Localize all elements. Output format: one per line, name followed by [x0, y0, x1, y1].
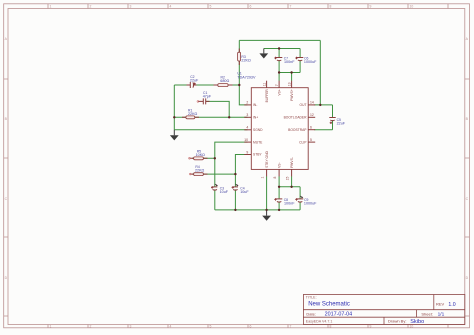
junction at C8 bottom rail	[278, 209, 280, 211]
wire: C7 branch vertical	[278, 49, 280, 58]
resistor R1	[182, 108, 199, 119]
ground	[170, 130, 179, 141]
wire: OUT row	[314, 104, 332, 106]
pin 12 BOOTLOADER	[284, 113, 316, 119]
svg-text:CLIP: CLIP	[299, 140, 307, 144]
svg-text:6: 6	[250, 5, 252, 9]
svg-text:Skibo: Skibo	[410, 319, 424, 325]
svg-text:1.0: 1.0	[448, 302, 455, 308]
junction at pin13 supply rail	[290, 71, 292, 73]
pin 2 IN-	[244, 101, 257, 107]
svg-text:REV: REV	[436, 301, 445, 306]
capacitor C2	[187, 75, 200, 88]
pin 4 SGND	[244, 126, 263, 132]
svg-text:100nF: 100nF	[284, 202, 295, 206]
wire: SGND row	[174, 129, 247, 131]
junction at R1 left	[173, 116, 175, 118]
wire: IN+ row through R1	[174, 116, 247, 118]
svg-text:22uF: 22uF	[190, 78, 199, 82]
svg-text:22KΩ: 22KΩ	[195, 169, 205, 173]
svg-text:PWVS+: PWVS+	[290, 89, 294, 101]
ground	[259, 49, 268, 59]
svg-text:1: 1	[261, 176, 265, 178]
svg-text:1/1: 1/1	[438, 312, 445, 318]
pin 13 PWVS+	[287, 81, 294, 101]
svg-text:22KΩ: 22KΩ	[188, 112, 198, 116]
svg-text:TDA7293V: TDA7293V	[237, 75, 256, 79]
wire: STBY branch down through C4	[235, 155, 247, 187]
capacitor C1	[197, 91, 212, 104]
resistor R4	[189, 165, 207, 175]
junction at OUT feedback	[319, 104, 321, 106]
svg-text:10KΩ: 10KΩ	[196, 153, 206, 157]
wire: left input vertical	[173, 85, 175, 130]
wire: ground rail top	[264, 48, 300, 50]
svg-text:2: 2	[90, 5, 92, 9]
svg-text:PWVS-: PWVS-	[290, 157, 294, 168]
svg-text:New Schematic: New Schematic	[308, 301, 350, 307]
pin 10 MUTE	[244, 138, 263, 144]
svg-text:6: 6	[310, 126, 312, 130]
wire: C6 branch vertical	[299, 49, 301, 58]
wire: STBY-GND pin 1 vertical	[266, 176, 268, 210]
svg-text:BUFFER: BUFFER	[265, 89, 269, 103]
svg-text:IN+: IN+	[253, 116, 258, 120]
wire: MUTE branch down through C3	[215, 142, 248, 187]
pin 5 CLIP	[299, 138, 315, 144]
svg-text:STBY: STBY	[253, 153, 262, 157]
svg-text:6: 6	[250, 324, 252, 328]
svg-text:2: 2	[90, 324, 92, 328]
junction at R2 IN- node	[238, 84, 240, 86]
svg-text:1: 1	[50, 5, 52, 9]
wire: R5 row	[192, 157, 215, 159]
pin 15 PWVS-	[286, 157, 295, 180]
wire: PWVS- pin 15 vertical	[291, 176, 293, 187]
svg-text:BOOSTRAP: BOOSTRAP	[288, 128, 307, 132]
pin 3 IN+	[244, 113, 258, 119]
svg-text:5: 5	[210, 5, 212, 9]
junction at ground rail pin1	[265, 209, 267, 211]
svg-text:11: 11	[262, 83, 266, 87]
svg-text:10uF: 10uF	[240, 190, 249, 194]
wire: PWVS+ pin branch	[291, 73, 293, 81]
svg-text:IN-: IN-	[253, 103, 257, 107]
capacitor C4	[232, 184, 250, 194]
wire: negative supply rail	[279, 186, 300, 188]
svg-text:Sheet:: Sheet:	[421, 311, 433, 316]
svg-text:VS-: VS-	[278, 162, 282, 168]
svg-text:MUTE: MUTE	[253, 140, 263, 144]
svg-text:9: 9	[246, 150, 248, 154]
svg-text:7: 7	[290, 5, 292, 9]
svg-text:VS+: VS+	[278, 89, 282, 95]
capacitor C9	[295, 196, 317, 206]
capacitor C7	[274, 57, 295, 65]
svg-text:TITLE:: TITLE:	[306, 296, 317, 300]
svg-text:3: 3	[246, 113, 248, 117]
svg-text:OUT: OUT	[300, 103, 307, 107]
svg-text:1: 1	[50, 324, 52, 328]
svg-text:8: 8	[330, 5, 332, 9]
wire: C1 branch to IN+ node	[206, 101, 229, 117]
wire: BOOSTRAP row	[314, 129, 332, 131]
svg-text:4: 4	[170, 324, 172, 328]
pin 9 STBY	[244, 150, 262, 156]
svg-text:4: 4	[246, 126, 248, 130]
pin 14 OUT	[300, 101, 316, 107]
svg-text:10uF: 10uF	[220, 190, 229, 194]
wire: R3 vertical branch (rail to IN-)	[239, 40, 247, 105]
svg-text:10: 10	[410, 5, 414, 9]
pin 8 VS-	[273, 162, 282, 178]
capacitor C8	[274, 198, 295, 206]
svg-text:5: 5	[210, 324, 212, 328]
junction at C4 bottom rail	[234, 209, 236, 211]
pin 11 BUFFER	[262, 81, 269, 103]
junction at R4 STBY branch	[234, 173, 236, 175]
capacitor C5	[329, 118, 345, 126]
junction at C7 ground rail	[278, 47, 280, 49]
svg-text:47pF: 47pF	[203, 95, 212, 99]
svg-text:10: 10	[244, 138, 248, 142]
wire: supply rail VS+	[279, 72, 300, 74]
pin 1 STBY GND	[261, 150, 270, 178]
wire: C5 branch vertical	[332, 105, 334, 118]
junction at pin15 rail	[290, 186, 292, 188]
svg-text:100nF: 100nF	[284, 60, 295, 64]
junction at C7 supply rail	[278, 71, 280, 73]
junction at C8 top rail	[278, 186, 280, 188]
svg-text:1000uF: 1000uF	[304, 60, 317, 64]
wire: VS- pin 8 vertical through C8	[278, 176, 280, 199]
svg-text:14: 14	[310, 101, 314, 105]
svg-text:SGND: SGND	[253, 128, 263, 132]
wire: C9 branch vertical	[299, 187, 301, 199]
ground	[262, 210, 271, 221]
wire: feedback top rail	[239, 39, 320, 41]
svg-text:2017-07-04: 2017-07-04	[325, 312, 353, 318]
svg-text:EasyEDA V4.7.1: EasyEDA V4.7.1	[306, 320, 333, 324]
svg-text:7: 7	[290, 324, 292, 328]
pin 7 VS+	[275, 81, 282, 96]
svg-text:5: 5	[310, 138, 312, 142]
svg-text:9: 9	[370, 5, 372, 9]
svg-text:22KΩ: 22KΩ	[241, 59, 251, 63]
svg-text:3: 3	[130, 5, 132, 9]
wire: C2 R2 row to IN- node	[174, 84, 190, 86]
svg-text:BOOTLOADER: BOOTLOADER	[284, 116, 308, 120]
svg-text:Date:: Date:	[306, 311, 316, 316]
svg-text:4: 4	[170, 5, 172, 9]
svg-text:2: 2	[246, 101, 248, 105]
svg-text:8: 8	[330, 324, 332, 328]
capacitor C3	[211, 184, 229, 194]
wire: feedback right vertical from rail to OUT	[319, 40, 321, 105]
svg-text:8: 8	[273, 176, 277, 178]
junction at C1 IN+ node	[228, 116, 230, 118]
svg-text:STBY GND: STBY GND	[265, 150, 269, 167]
svg-text:Drawn By:: Drawn By:	[388, 318, 406, 323]
resistor R3	[238, 49, 251, 66]
svg-text:15: 15	[286, 176, 290, 180]
wire: bottom ground rail	[215, 209, 300, 211]
svg-text:1000uF: 1000uF	[304, 202, 317, 206]
svg-text:9: 9	[370, 324, 372, 328]
pin 6 BOOSTRAP	[288, 126, 315, 132]
wire: R4 row	[192, 173, 235, 175]
resistor R5	[189, 149, 208, 159]
svg-text:13: 13	[287, 82, 291, 86]
capacitor C6	[295, 57, 317, 65]
op-amp U1	[237, 72, 308, 170]
svg-text:7: 7	[275, 84, 279, 86]
svg-text:12: 12	[310, 113, 314, 117]
svg-text:3: 3	[130, 324, 132, 328]
junction at R5 MUTE branch	[214, 157, 216, 159]
svg-text:22uF: 22uF	[337, 122, 346, 126]
svg-text:680Ω: 680Ω	[220, 79, 229, 83]
resistor R2	[214, 76, 233, 87]
